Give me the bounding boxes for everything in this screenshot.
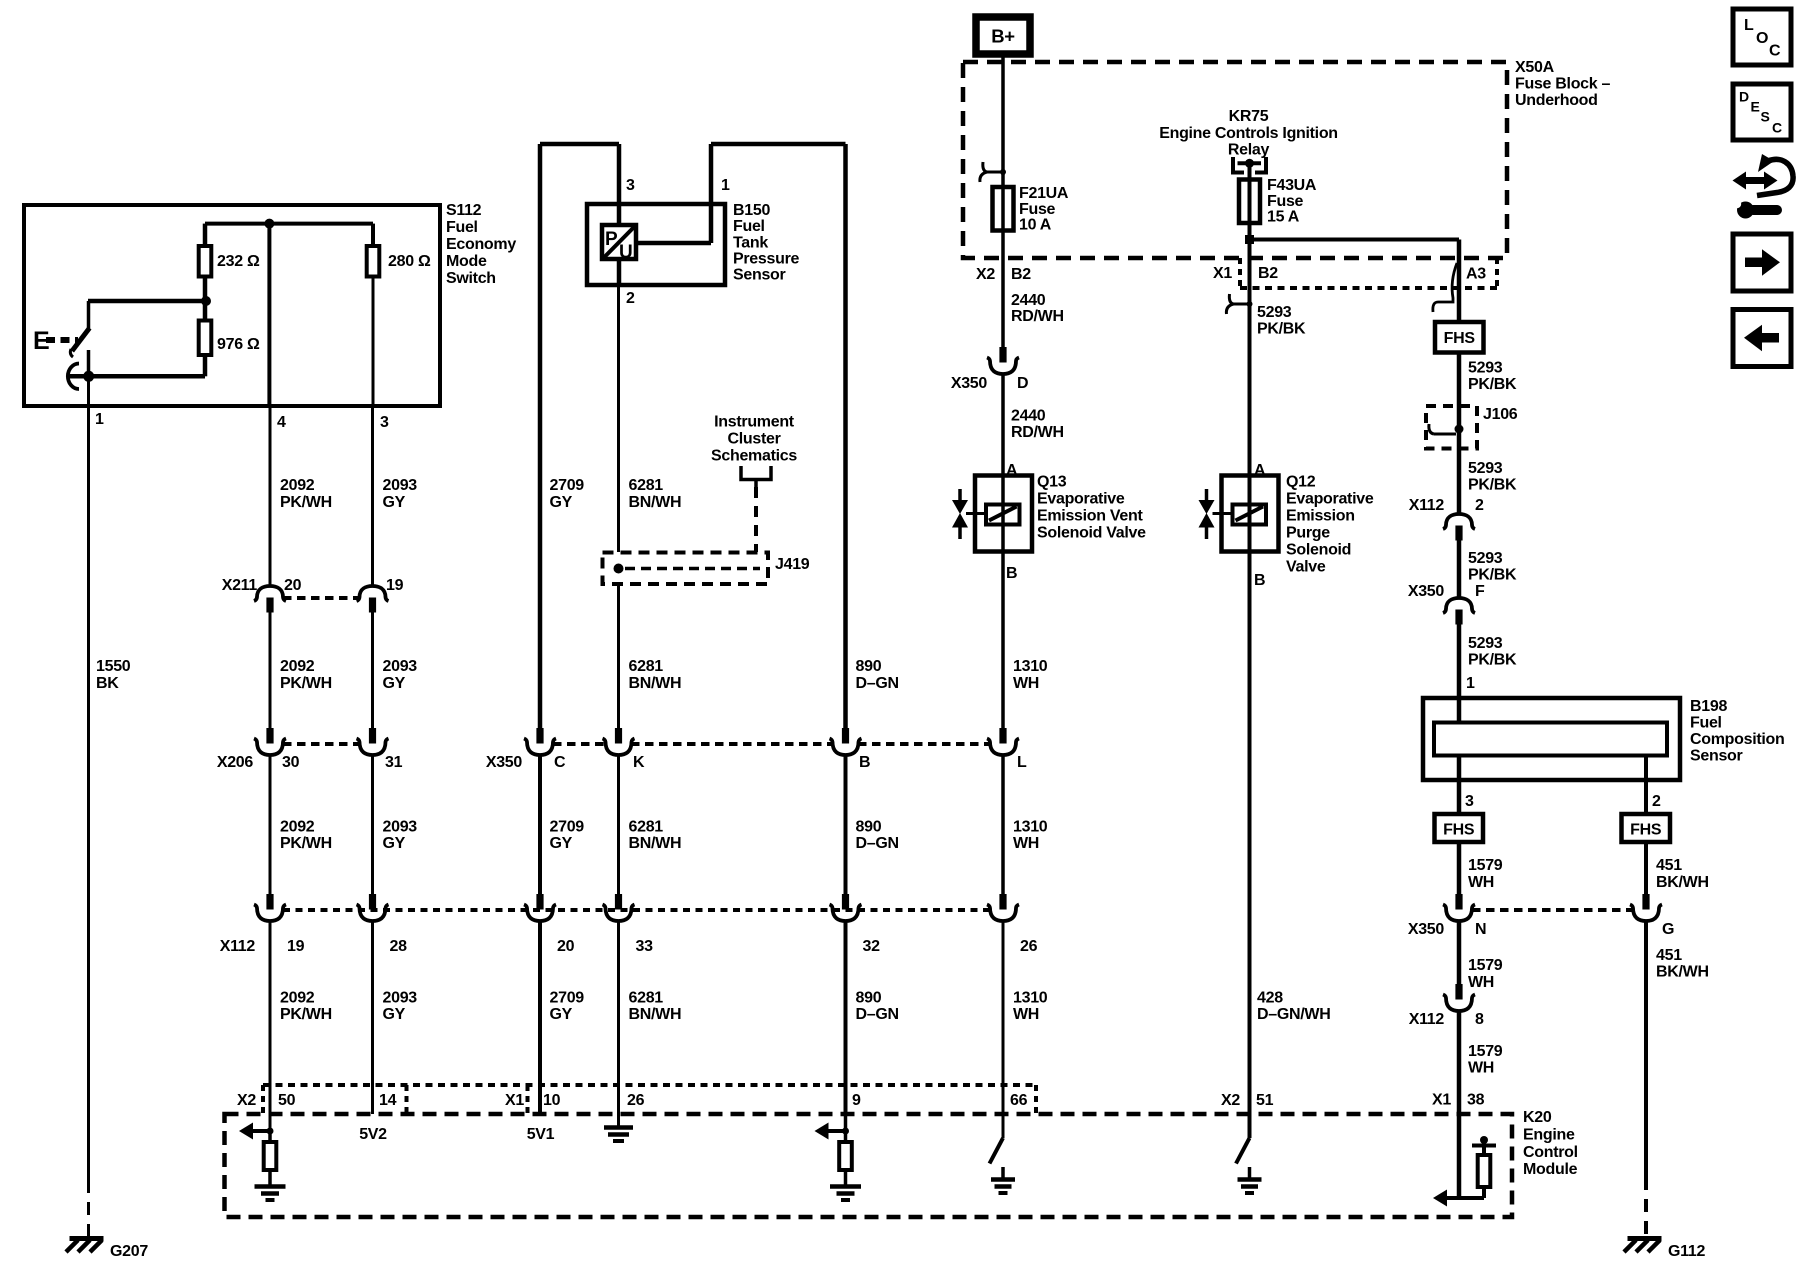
node junction pin1 <box>83 371 94 382</box>
svg-text:976 Ω: 976 Ω <box>217 336 260 353</box>
svg-text:5V1: 5V1 <box>527 1126 555 1143</box>
svg-text:B: B <box>859 754 870 771</box>
splice J106 dashed box <box>1426 406 1477 449</box>
B150 P/U transducer box <box>602 225 636 259</box>
svg-text:Fuse: Fuse <box>1019 201 1056 218</box>
wire B198 pin1 internal <box>1457 698 1462 723</box>
connector X206 pin 30 <box>254 728 286 755</box>
svg-text:PK/WH: PK/WH <box>280 675 332 692</box>
label 6281 BN/WH rowD <box>629 990 682 1024</box>
label B198 pin 1 <box>1466 675 1475 692</box>
svg-text:2093: 2093 <box>383 990 418 1007</box>
icon connector end view <box>1733 154 1794 219</box>
label 1579 WH b <box>1468 957 1503 991</box>
label 2093 GY rowC <box>383 819 418 853</box>
svg-text:2: 2 <box>626 290 635 307</box>
svg-text:2: 2 <box>1652 793 1661 810</box>
label X350 pin L <box>1017 754 1027 771</box>
wire through J106 <box>1457 406 1462 449</box>
label J106 <box>1483 406 1518 423</box>
label 1310 WH rowD <box>1013 990 1048 1024</box>
connector X112 pin 26 <box>987 894 1019 921</box>
wire 232 ohm top stub <box>203 224 208 246</box>
svg-text:Fuel: Fuel <box>733 218 765 235</box>
arrow pin 50 <box>239 1123 274 1140</box>
arrow pin 38 <box>1433 1190 1464 1207</box>
svg-text:15 A: 15 A <box>1267 209 1300 226</box>
svg-text:GY: GY <box>550 1006 573 1023</box>
wire 6281 BN/WH seg1 <box>617 285 620 552</box>
FHS box A3 <box>1435 322 1484 353</box>
wire B+ to fuse <box>1001 51 1005 232</box>
label 232 ohm <box>217 253 260 270</box>
svg-text:X350: X350 <box>951 375 988 392</box>
wire relay to F43UA <box>1248 163 1252 225</box>
label 5293 PK/BK q12 <box>1257 304 1306 338</box>
clip F21UA input <box>980 162 1006 182</box>
svg-text:L: L <box>1017 754 1027 771</box>
label X206 <box>217 754 254 771</box>
wire F43UA output <box>1248 223 1252 258</box>
switch ECM pin66 <box>990 1138 1004 1164</box>
svg-text:J419: J419 <box>775 556 810 573</box>
resistor 232 ohm <box>199 246 212 277</box>
svg-text:Evaporative: Evaporative <box>1037 491 1125 508</box>
svg-text:2092: 2092 <box>280 477 315 494</box>
label B150 pin 1 <box>721 177 730 194</box>
svg-text:D–GN/WH: D–GN/WH <box>1257 1006 1330 1023</box>
resistor ECM pin50 <box>264 1142 277 1170</box>
wire X206 link dashed <box>283 742 360 746</box>
svg-text:A3: A3 <box>1466 266 1486 283</box>
wire 428 D-GN/WH <box>1248 552 1252 1139</box>
svg-text:1310: 1310 <box>1013 819 1048 836</box>
svg-text:RD/WH: RD/WH <box>1011 424 1064 441</box>
svg-text:GY: GY <box>383 835 406 852</box>
svg-text:X2: X2 <box>1221 1092 1240 1109</box>
svg-text:1579: 1579 <box>1468 957 1503 974</box>
wire 2093 GY seg3 <box>371 755 374 894</box>
wire pin26 internal <box>617 1114 620 1126</box>
svg-text:D–GN: D–GN <box>856 835 899 852</box>
svg-text:C: C <box>1769 43 1781 60</box>
label 2092 PK/WH rowD <box>280 990 332 1024</box>
svg-text:890: 890 <box>856 990 882 1007</box>
label 1550 BK <box>96 658 131 692</box>
label X211 pin 20 <box>284 577 302 594</box>
K20 Engine Control Module dashed box <box>225 1114 1513 1217</box>
label G112 <box>1668 1243 1705 1260</box>
label Q12 <box>1286 474 1374 576</box>
ground ECM pin66 <box>991 1180 1015 1194</box>
ECM row left cap dotted <box>261 1085 265 1114</box>
svg-text:26: 26 <box>1020 938 1038 955</box>
label pin 10 <box>543 1092 561 1109</box>
label G207 <box>110 1243 148 1260</box>
wire switch pivot stub <box>87 301 91 329</box>
instrument cluster bracket <box>741 466 771 487</box>
svg-text:J106: J106 <box>1483 406 1518 423</box>
wire F21UA to X2 B2 <box>1001 231 1005 349</box>
connector X350 pin G <box>1630 894 1662 921</box>
label 2440 RD/WH a <box>1011 292 1064 325</box>
label F43UA Fuse 15 A <box>1267 177 1317 226</box>
wire A3 drop <box>1457 240 1462 323</box>
label X1 ecm <box>505 1092 524 1109</box>
label X2 ecm <box>237 1092 256 1109</box>
svg-text:5293: 5293 <box>1468 460 1503 477</box>
label X112 pin 19 <box>287 938 305 955</box>
label X2 B2 left <box>976 266 1031 283</box>
FHS box pin2 <box>1622 814 1671 842</box>
wire switch feed horizontal <box>88 299 205 304</box>
svg-text:26: 26 <box>627 1092 645 1109</box>
wire X350 N-G link dashed <box>1472 908 1632 912</box>
label 5V2 <box>359 1126 387 1143</box>
ground G112 <box>1624 1239 1662 1253</box>
svg-text:10 A: 10 A <box>1019 217 1052 234</box>
wire through Q12 <box>1248 476 1252 552</box>
wire pin9 internal <box>844 1114 848 1131</box>
fuse F43UA <box>1239 180 1260 224</box>
connector X211 pin 19 <box>357 586 389 613</box>
svg-text:1: 1 <box>95 411 104 428</box>
label E hot indicator <box>33 327 49 355</box>
svg-text:4: 4 <box>277 414 286 431</box>
svg-text:X350: X350 <box>486 754 523 771</box>
label X350 pin B <box>859 754 870 771</box>
label X350 pin N <box>1475 921 1486 938</box>
svg-text:Sensor: Sensor <box>1690 748 1743 765</box>
svg-text:2440: 2440 <box>1011 292 1046 309</box>
label 451 BK/WH b <box>1656 947 1709 981</box>
svg-text:Emission: Emission <box>1286 508 1355 525</box>
svg-text:X2: X2 <box>976 266 995 283</box>
svg-text:Control: Control <box>1523 1144 1578 1161</box>
svg-text:X211: X211 <box>222 577 258 594</box>
label 2092 PK/WH rowA <box>280 477 332 511</box>
K20 label <box>1523 1109 1578 1178</box>
svg-text:Mode: Mode <box>446 253 487 270</box>
label pin 66 <box>1010 1092 1028 1109</box>
svg-text:Composition: Composition <box>1690 731 1784 748</box>
wire 451 seg a <box>1644 842 1648 894</box>
svg-text:6281: 6281 <box>629 819 664 836</box>
label pin 14 <box>379 1092 397 1109</box>
svg-text:PK/BK: PK/BK <box>1257 321 1306 338</box>
svg-text:GY: GY <box>383 494 406 511</box>
X50A label <box>1515 59 1611 109</box>
svg-text:2093: 2093 <box>383 819 418 836</box>
ground G207 <box>66 1239 104 1253</box>
node F43UA junction <box>1245 235 1254 244</box>
svg-text:1579: 1579 <box>1468 1043 1503 1060</box>
valve symbol Q12 <box>1199 489 1215 539</box>
svg-text:X112: X112 <box>1409 1011 1445 1028</box>
wire 5293 seg a <box>1457 353 1462 407</box>
wire 2709 GY seg3 <box>538 755 542 894</box>
FHS box pin3 <box>1435 814 1484 842</box>
svg-text:280 Ω: 280 Ω <box>388 253 431 270</box>
wire 5293 PK/BK seg0 <box>1248 258 1252 476</box>
svg-text:2709: 2709 <box>550 819 585 836</box>
svg-text:Switch: Switch <box>446 270 496 287</box>
wire X350 link dashed K-B <box>631 742 832 746</box>
svg-text:X1: X1 <box>1213 265 1232 282</box>
svg-text:N: N <box>1475 921 1486 938</box>
wire X350 link dashed B-L <box>858 742 990 746</box>
solenoid Q12 box <box>1222 476 1279 552</box>
label pin 1 <box>95 411 104 428</box>
fuse F21UA <box>993 187 1014 231</box>
svg-text:2093: 2093 <box>383 477 418 494</box>
svg-text:890: 890 <box>856 658 882 675</box>
svg-text:5293: 5293 <box>1468 635 1503 652</box>
svg-text:28: 28 <box>390 938 408 955</box>
node junction pin4 bus <box>264 219 274 229</box>
wire pin9 to resistor <box>844 1131 848 1142</box>
label Q13 pin A <box>1006 462 1018 479</box>
Q12 solenoid coil <box>1213 505 1267 525</box>
splice J106 symbol <box>1429 424 1464 434</box>
label X350 D <box>951 375 1028 392</box>
label pin 50 <box>278 1092 296 1109</box>
wire 2440 seg2 <box>1001 374 1005 476</box>
svg-text:2440: 2440 <box>1011 408 1046 425</box>
svg-text:Solenoid: Solenoid <box>1286 542 1351 559</box>
svg-text:3: 3 <box>380 414 389 431</box>
svg-text:BK/WH: BK/WH <box>1656 964 1709 981</box>
svg-text:L: L <box>1744 17 1754 34</box>
svg-text:2092: 2092 <box>280 819 315 836</box>
label 5293 PK/BK d <box>1468 635 1517 669</box>
label B198 pin 3 <box>1465 793 1474 810</box>
switch blade S112 <box>70 328 89 357</box>
connector X350 pin N <box>1443 894 1475 921</box>
svg-text:K: K <box>633 754 645 771</box>
svg-text:8: 8 <box>1475 1011 1484 1028</box>
wire X350 link dashed C-K <box>553 742 605 746</box>
svg-text:BN/WH: BN/WH <box>629 835 682 852</box>
label 1579 WH a <box>1468 857 1503 891</box>
label pin 4 <box>277 414 286 431</box>
svg-text:2092: 2092 <box>280 990 315 1007</box>
label pin 51 <box>1256 1092 1274 1109</box>
wire B198 pin3 <box>1457 756 1462 815</box>
wire B150 P/U output <box>636 241 711 246</box>
svg-text:BN/WH: BN/WH <box>629 1006 682 1023</box>
svg-text:G207: G207 <box>110 1243 148 1260</box>
svg-text:WH: WH <box>1013 675 1039 692</box>
connector X112 pin 2 <box>1443 514 1475 541</box>
wire X112 row dotted <box>283 908 990 912</box>
label Q12 pin B <box>1254 572 1265 589</box>
ECM row cap after 14 dotted <box>405 1085 409 1114</box>
ground ECM pin51 <box>1238 1180 1262 1194</box>
label J419 <box>775 556 810 573</box>
svg-text:14: 14 <box>379 1092 397 1109</box>
wire X1-A3 connector row dotted <box>1240 258 1497 288</box>
wire 890 D-GN seg4 <box>844 921 848 1114</box>
svg-text:FHS: FHS <box>1443 822 1475 839</box>
label 890 D-GN rowC <box>856 819 899 853</box>
label X1 38 <box>1432 1092 1485 1109</box>
svg-text:GY: GY <box>383 675 406 692</box>
svg-text:WH: WH <box>1468 1060 1494 1077</box>
svg-text:GY: GY <box>550 835 573 852</box>
connector X206 pin 31 <box>357 728 389 755</box>
label B150 pin 2 <box>626 290 635 307</box>
svg-text:232 Ω: 232 Ω <box>217 253 260 270</box>
svg-text:X112: X112 <box>220 938 256 955</box>
wire B150 pin 3 drop <box>617 144 622 225</box>
svg-text:20: 20 <box>557 938 575 955</box>
svg-text:FHS: FHS <box>1444 330 1476 347</box>
wire 976 bottom stub <box>203 355 208 376</box>
label 5293 PK/BK c <box>1468 550 1517 584</box>
svg-text:X1: X1 <box>1432 1092 1451 1109</box>
label 2709 GY rowC <box>550 819 585 853</box>
label X112 8 <box>1409 1011 1484 1028</box>
wire 890 drop <box>843 144 848 728</box>
svg-text:FHS: FHS <box>1630 822 1662 839</box>
wire B198 pin2 <box>1644 756 1648 815</box>
label X2 ecm right <box>1221 1092 1240 1109</box>
svg-text:WH: WH <box>1468 874 1494 891</box>
S112 Fuel Economy Mode Switch box <box>24 205 440 406</box>
svg-text:2092: 2092 <box>280 658 315 675</box>
wire S112 internal top bus <box>205 222 373 226</box>
label 6281 BN/WH rowB <box>629 658 682 692</box>
connector X112 pin 33 <box>603 894 635 921</box>
svg-text:C: C <box>554 754 566 771</box>
wire X1 connector separator dotted <box>1238 258 1242 288</box>
label X350 F <box>1408 583 1485 600</box>
wire pin4 internal <box>267 224 271 406</box>
svg-text:Q12: Q12 <box>1286 474 1316 491</box>
svg-text:9: 9 <box>852 1092 861 1109</box>
icon DESC box <box>1733 84 1791 140</box>
icon back arrow box <box>1733 310 1791 367</box>
svg-text:WH: WH <box>1468 974 1494 991</box>
switch ECM pin51 <box>1236 1138 1250 1164</box>
resistor ECM pin9 <box>839 1142 852 1170</box>
label 1579 WH c <box>1468 1043 1503 1077</box>
connector X112 pin 20 <box>524 894 556 921</box>
label X206 pin 30 <box>282 754 300 771</box>
svg-text:Q13: Q13 <box>1037 474 1067 491</box>
svg-text:33: 33 <box>636 938 654 955</box>
svg-text:19: 19 <box>386 577 404 594</box>
label 2093 GY rowD <box>383 990 418 1024</box>
svg-text:Module: Module <box>1523 1161 1578 1178</box>
svg-text:B: B <box>1254 572 1265 589</box>
svg-text:1310: 1310 <box>1013 990 1048 1007</box>
label 6281 BN/WH rowA <box>629 477 682 511</box>
wire pullup T bar <box>1472 1136 1496 1146</box>
label 6281 BN/WH rowC <box>629 819 682 853</box>
node junction switch feed <box>201 296 211 306</box>
label X350 pin G <box>1662 921 1674 938</box>
wire B150 pin 2 drop <box>617 259 622 285</box>
svg-text:66: 66 <box>1010 1092 1028 1109</box>
B150 label <box>733 202 799 284</box>
label 2093 GY rowB <box>383 658 418 692</box>
wire J419 internal dashed <box>625 567 760 571</box>
wire 890 D-GN seg3 <box>844 755 848 894</box>
arrow pin 9 <box>815 1123 850 1140</box>
label X112 pin 20 <box>557 938 575 955</box>
svg-text:B+: B+ <box>991 26 1015 47</box>
wire instrument cluster dashed <box>754 487 758 552</box>
wire 2092 PK/WH seg1 <box>269 406 272 586</box>
svg-text:5V2: 5V2 <box>359 1126 387 1143</box>
wire pin3 internal <box>372 277 375 407</box>
icon forward arrow box <box>1733 234 1791 291</box>
svg-text:E: E <box>1751 99 1760 115</box>
wire 2709 GY seg4 <box>538 921 542 1114</box>
svg-text:PK/BK: PK/BK <box>1468 652 1517 669</box>
label Instrument Cluster Schematics <box>711 414 797 465</box>
svg-text:6281: 6281 <box>629 477 664 494</box>
svg-text:X350: X350 <box>1408 921 1445 938</box>
node J419 junction <box>614 564 624 574</box>
wire 6281 BN/WH seg3 <box>617 755 620 894</box>
label 2093 GY rowA <box>383 477 418 511</box>
label pin 26 <box>627 1092 645 1109</box>
label 451 BK/WH a <box>1656 857 1709 891</box>
svg-text:X206: X206 <box>217 754 254 771</box>
connector X112 pin 28 <box>357 894 389 921</box>
label F21UA Fuse 10 A <box>1019 185 1069 234</box>
wire 1579 seg a <box>1457 842 1462 894</box>
svg-text:D–GN: D–GN <box>856 675 899 692</box>
wire 2092 PK/WH seg4 <box>269 921 272 1114</box>
svg-text:451: 451 <box>1656 947 1682 964</box>
wire X211 link dashed <box>283 596 360 600</box>
wire pin51 contact stub <box>1248 1167 1252 1178</box>
svg-text:X2: X2 <box>237 1092 256 1109</box>
splice J419 dashed box <box>603 553 769 585</box>
label Q13 pin B <box>1006 565 1017 582</box>
label 5293 PK/BK a <box>1468 360 1517 394</box>
svg-text:X50A: X50A <box>1515 59 1555 76</box>
svg-text:51: 51 <box>1256 1092 1274 1109</box>
connector X350 pin D <box>987 347 1019 374</box>
svg-text:2093: 2093 <box>383 658 418 675</box>
svg-text:428: 428 <box>1257 990 1283 1007</box>
svg-text:Fuel: Fuel <box>446 219 478 236</box>
label X211 pin 19 <box>386 577 404 594</box>
connector X350 pin C <box>524 728 556 755</box>
svg-text:20: 20 <box>284 577 302 594</box>
wire 2093 GY seg4 <box>371 921 374 1114</box>
svg-text:1310: 1310 <box>1013 658 1048 675</box>
svg-text:GY: GY <box>550 494 573 511</box>
svg-text:S112: S112 <box>446 202 482 219</box>
wire 5293 seg b <box>1457 449 1462 515</box>
svg-text:5293: 5293 <box>1257 304 1292 321</box>
svg-text:K20: K20 <box>1523 1109 1552 1126</box>
svg-text:WH: WH <box>1013 835 1039 852</box>
label U <box>619 242 632 263</box>
svg-text:6281: 6281 <box>629 990 664 1007</box>
svg-text:890: 890 <box>856 819 882 836</box>
svg-text:Underhood: Underhood <box>1515 92 1598 109</box>
label 890 D-GN rowB <box>856 658 899 692</box>
wire pin50 to resistor <box>268 1131 272 1142</box>
wire 280 ohm top stub <box>371 224 375 246</box>
